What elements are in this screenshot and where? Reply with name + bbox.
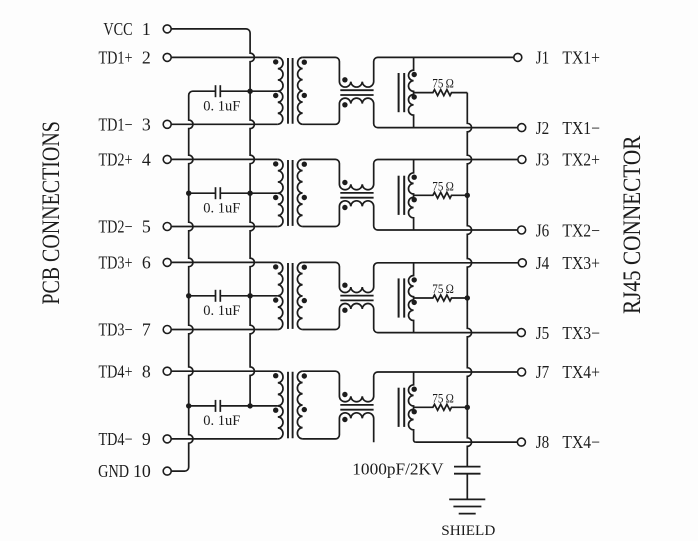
svg-text:0. 1uF: 0. 1uF [203,201,240,217]
svg-text:3: 3 [142,114,151,134]
svg-text:4: 4 [142,150,151,170]
svg-text:1000pF/2KV: 1000pF/2KV [352,459,444,478]
svg-text:J7: J7 [536,362,549,382]
svg-text:75 Ω: 75 Ω [432,179,454,194]
svg-text:TD3+: TD3+ [98,254,132,273]
svg-text:TD4−: TD4− [98,431,132,450]
svg-text:VCC: VCC [103,21,132,40]
svg-text:RJ45 CONNECTOR: RJ45 CONNECTOR [618,135,646,314]
svg-text:TD3−: TD3− [98,321,132,340]
svg-text:75 Ω: 75 Ω [432,76,454,91]
svg-text:PCB CONNECTIONS: PCB CONNECTIONS [37,121,65,304]
svg-text:TX3+: TX3+ [562,253,600,273]
svg-text:J8: J8 [536,432,549,452]
svg-text:TX1−: TX1− [562,118,600,138]
svg-text:10: 10 [133,461,151,481]
svg-text:5: 5 [142,217,151,237]
svg-text:7: 7 [142,320,151,340]
svg-text:J1: J1 [536,47,549,67]
svg-text:8: 8 [142,361,151,381]
svg-text:TX2+: TX2+ [562,150,600,170]
svg-text:TD4+: TD4+ [98,363,132,382]
svg-text:TX4−: TX4− [562,432,600,452]
svg-text:J2: J2 [536,118,549,138]
svg-text:J5: J5 [536,323,549,343]
svg-text:SHIELD: SHIELD [441,522,495,539]
svg-text:6: 6 [142,253,151,273]
svg-text:75 Ω: 75 Ω [432,281,454,296]
svg-text:J6: J6 [536,220,549,240]
svg-text:0. 1uF: 0. 1uF [203,303,240,319]
svg-text:TX3−: TX3− [562,323,600,343]
svg-text:TD1−: TD1− [98,116,132,135]
svg-text:TD1+: TD1+ [98,49,132,68]
svg-text:TD2+: TD2+ [98,151,132,170]
svg-text:TD2−: TD2− [98,218,132,237]
svg-text:J3: J3 [536,150,549,170]
svg-text:TX4+: TX4+ [562,362,600,382]
svg-text:TX1+: TX1+ [562,48,600,68]
svg-text:0. 1uF: 0. 1uF [203,99,240,115]
svg-text:75 Ω: 75 Ω [432,391,454,406]
svg-text:2: 2 [142,48,151,68]
svg-text:1: 1 [142,19,151,39]
svg-text:J4: J4 [536,253,549,273]
svg-text:0. 1uF: 0. 1uF [203,413,240,429]
svg-text:TX2−: TX2− [562,220,600,240]
svg-text:GND: GND [98,463,129,482]
svg-text:9: 9 [142,429,151,449]
